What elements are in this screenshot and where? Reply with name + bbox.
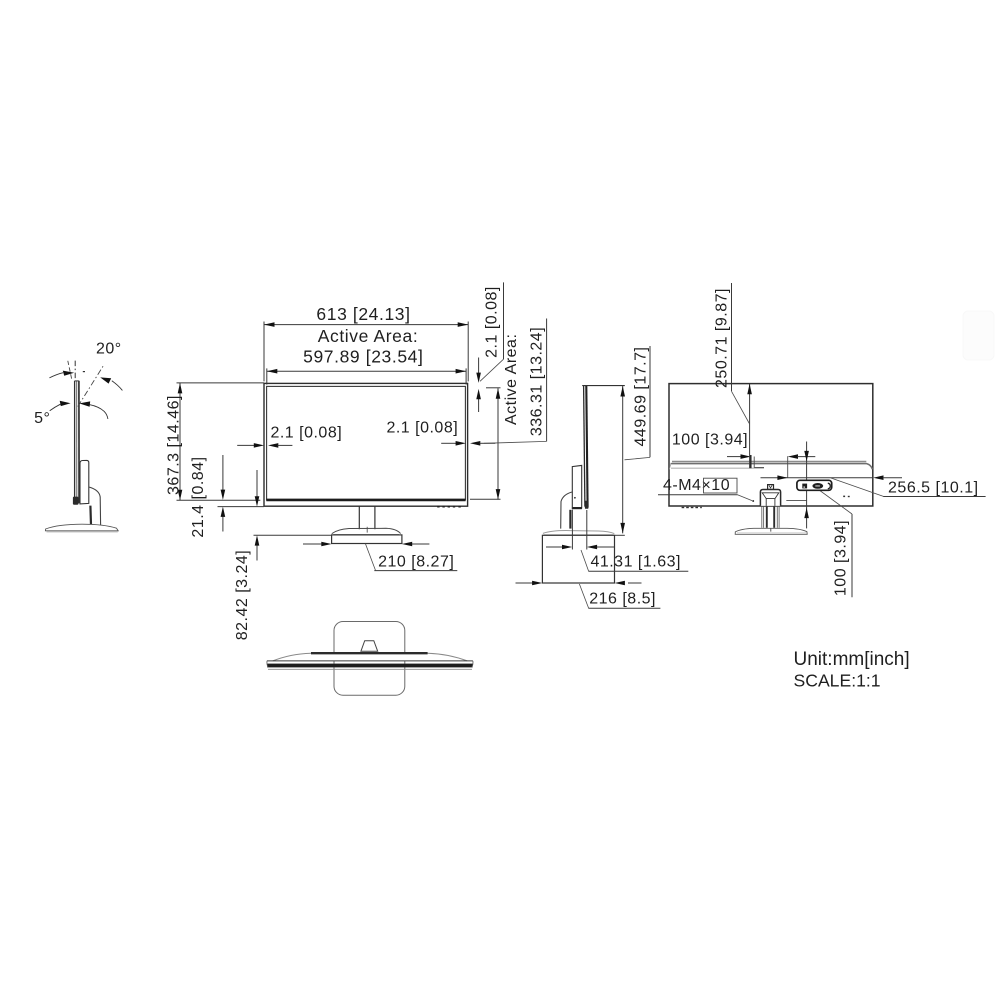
svg-text:Active Area:: Active Area: [503, 334, 520, 425]
svg-text:210 [8.27]: 210 [8.27] [378, 554, 454, 571]
tilt hinge bracket [80, 460, 89, 504]
front outer bezel rectangle [264, 383, 468, 506]
svg-text:216 [8.5]: 216 [8.5] [589, 591, 656, 608]
front base top arc [332, 528, 401, 533]
dim 210 base width [303, 543, 429, 545]
rear seam lines [672, 461, 866, 463]
5deg arc lower-right arrow [89, 405, 108, 419]
side hinge bracket [572, 465, 581, 508]
tilt panel side profile [75, 381, 80, 503]
svg-text:21.4 [0.84]: 21.4 [0.84] [190, 456, 207, 537]
side base rectangle [542, 535, 614, 583]
svg-text:Active Area:: Active Area: [318, 326, 419, 346]
rear OSD dots bottom-left [682, 507, 702, 508]
svg-text:20°: 20° [96, 341, 122, 358]
svg-text:SCALE:1:1: SCALE:1:1 [794, 670, 881, 690]
rear connector panel [797, 480, 832, 490]
vertical dash-dot reference line [74, 361, 76, 381]
svg-text:449.69 [17.7]: 449.69 [17.7] [632, 347, 649, 447]
svg-text:367.3 [14.46]: 367.3 [14.46] [166, 395, 183, 495]
rear stand neck [762, 507, 779, 528]
rear stand mount inner trapezoid [762, 493, 779, 499]
tilt stand leg front dark edge [89, 506, 92, 525]
svg-text:100 [3.94]: 100 [3.94] [672, 432, 748, 449]
dim 256.5 [761, 477, 874, 479]
monitor bottom extension line [218, 506, 264, 508]
dim 449.69 height [615, 534, 625, 536]
top view monitor lens shape [273, 653, 467, 661]
side panel screen edge [584, 386, 585, 507]
front OSD button dots [437, 506, 461, 508]
svg-text:256.5 [10.1]: 256.5 [10.1] [888, 479, 979, 496]
side stand leg back dark edge [569, 510, 571, 529]
rear VESA bottom line [786, 500, 806, 502]
svg-text:41.31 [1.63]: 41.31 [1.63] [590, 554, 681, 571]
20deg arc upper-right arrow [112, 381, 123, 391]
front active area bottom thick edge [266, 499, 465, 502]
20deg arc upper-left arrow [49, 373, 63, 378]
dim 336.31 active height (rotated labels) [470, 388, 501, 500]
side panel top edge with extension [582, 385, 625, 387]
front stand neck [358, 506, 360, 529]
rear VESA left hole mark [750, 455, 752, 468]
side panel bottom blob [584, 501, 588, 509]
svg-text:336.31 [13.24]: 336.31 [13.24] [529, 327, 546, 436]
dim 216 base depth [516, 582, 642, 584]
rear stand mount tab [768, 485, 774, 490]
rear lower thin line [671, 467, 764, 469]
dim 2.1 top bezel (rotated label top-right) [478, 358, 480, 413]
side stand leg [561, 492, 572, 529]
faint watermark [963, 311, 994, 360]
small dash mark right of vertical line [83, 371, 85, 373]
tilt panel bottom bezel blob [73, 497, 79, 505]
svg-text:2.1 [0.08]: 2.1 [0.08] [483, 286, 500, 358]
dim 21.4 bottom bezel [222, 455, 224, 532]
svg-text:597.89 [23.54]: 597.89 [23.54] [303, 347, 423, 367]
svg-text:100 [3.94]: 100 [3.94] [832, 520, 849, 596]
svg-text:613 [24.13]: 613 [24.13] [316, 304, 410, 324]
5 degree dashed line [68, 361, 72, 379]
svg-text:4-M4×10: 4-M4×10 [663, 477, 730, 494]
dim 597.89 active width [267, 368, 466, 384]
front active area rectangle [267, 386, 466, 499]
side base top curve [543, 531, 614, 534]
dim 41.31 depth [546, 510, 615, 550]
20 degree dashed line [78, 365, 104, 406]
rear base plate [735, 528, 807, 534]
rear outer rectangle [669, 384, 873, 506]
rear VESA right hole mark [787, 456, 789, 478]
side bracket screw dot [574, 497, 576, 499]
front base rectangle [332, 535, 402, 544]
dim 250.71 (rotated label above) [749, 384, 751, 468]
top view neck trapezoid [361, 641, 378, 652]
dim 613 width [264, 322, 468, 382]
rear stand mount body [760, 490, 780, 506]
svg-text:5°: 5° [34, 410, 50, 427]
svg-text:2.1 [0.08]: 2.1 [0.08] [386, 420, 458, 437]
svg-text:Unit:mm[inch]: Unit:mm[inch] [794, 649, 910, 670]
side bracket bottom dark edge [573, 507, 582, 509]
dim 82.42 [254, 470, 332, 561]
svg-text:250.71 [9.87]: 250.71 [9.87] [713, 288, 730, 388]
top view base rounded square [334, 622, 405, 696]
svg-text:82.42 [3.24]: 82.42 [3.24] [234, 550, 251, 641]
tilt base plate [45, 524, 118, 531]
5deg arc lower-left arrow [50, 404, 61, 411]
dim 100 vertical VESA [806, 442, 808, 529]
dim 100 horizontal VESA [727, 456, 741, 458]
svg-text:2.1 [0.08]: 2.1 [0.08] [270, 424, 342, 441]
dim 367.3 height [177, 383, 265, 500]
tilt stand leg [89, 487, 101, 525]
two small dots right [843, 496, 845, 498]
